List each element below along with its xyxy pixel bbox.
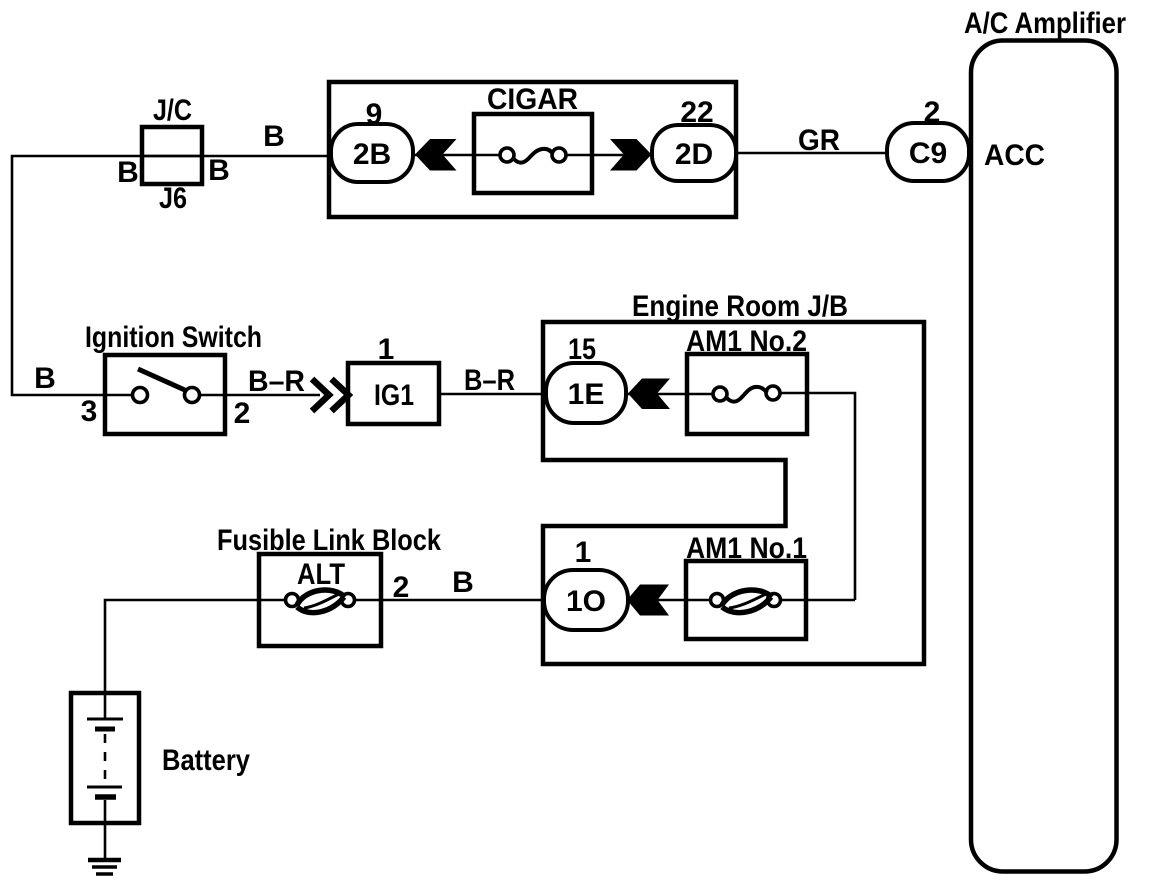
svg-text:1: 1 [378, 333, 395, 366]
svg-text:2: 2 [393, 571, 410, 604]
svg-text:2B: 2B [353, 138, 391, 171]
svg-text:B–R: B–R [464, 364, 515, 397]
svg-text:1E: 1E [568, 378, 605, 411]
svg-text:Battery: Battery [162, 744, 250, 777]
svg-text:B: B [263, 120, 285, 153]
svg-text:CIGAR: CIGAR [487, 83, 578, 116]
svg-text:B: B [208, 154, 230, 187]
svg-text:Engine Room J/B: Engine Room J/B [632, 290, 848, 323]
svg-text:B: B [117, 156, 139, 189]
svg-text:AM1 No.1: AM1 No.1 [686, 532, 807, 565]
svg-text:A/C Amplifier: A/C Amplifier [964, 7, 1126, 40]
svg-text:J/C: J/C [153, 94, 192, 127]
svg-text:IG1: IG1 [374, 379, 414, 412]
svg-text:ACC: ACC [984, 139, 1045, 172]
svg-text:GR: GR [798, 124, 840, 157]
svg-text:15: 15 [568, 333, 596, 366]
svg-text:B: B [34, 362, 56, 395]
svg-text:3: 3 [81, 395, 98, 428]
svg-text:1: 1 [575, 536, 592, 569]
svg-text:B: B [452, 566, 474, 599]
svg-text:2D: 2D [675, 138, 713, 171]
svg-text:1O: 1O [566, 585, 606, 618]
svg-text:C9: C9 [909, 137, 947, 170]
svg-text:Fusible Link Block: Fusible Link Block [217, 524, 441, 557]
svg-text:2: 2 [924, 96, 941, 129]
svg-text:ALT: ALT [297, 558, 345, 591]
svg-text:J6: J6 [159, 182, 187, 215]
svg-text:Ignition Switch: Ignition Switch [85, 321, 262, 354]
svg-text:22: 22 [680, 96, 713, 129]
svg-text:B–R: B–R [248, 365, 305, 398]
svg-text:AM1 No.2: AM1 No.2 [686, 325, 807, 358]
svg-text:2: 2 [234, 397, 251, 430]
svg-text:9: 9 [366, 98, 383, 131]
